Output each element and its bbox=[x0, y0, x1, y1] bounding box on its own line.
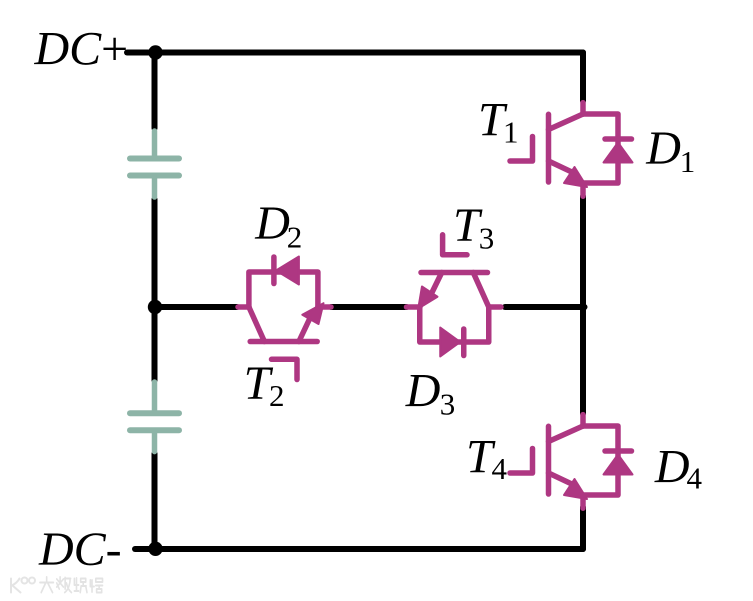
label T2 bbox=[244, 357, 285, 413]
transistor T3 (IGBT) bbox=[407, 235, 502, 309]
D4 branch wiring bbox=[583, 426, 618, 495]
T1 body bar bbox=[546, 114, 552, 182]
svg-text:3: 3 bbox=[479, 220, 495, 255]
D2 branch wiring bbox=[249, 272, 318, 307]
T4 body bar bbox=[546, 426, 552, 494]
D1 anode triangle bbox=[604, 143, 633, 163]
diode D1 bbox=[583, 114, 633, 183]
capacitor C2 bbox=[130, 382, 179, 452]
T3 emitter diagonal bbox=[431, 273, 442, 295]
label T1 bbox=[478, 93, 519, 149]
label T3 bbox=[453, 199, 494, 255]
diode D2 bbox=[249, 257, 318, 308]
wire left leg middle (C1 to C2 through midpoint node) bbox=[152, 199, 158, 380]
T1 gate lead bbox=[510, 137, 533, 162]
svg-text:DC: DC bbox=[34, 22, 103, 75]
T2 body bar bbox=[250, 339, 317, 345]
svg-text:D: D bbox=[405, 365, 441, 418]
svg-text:4: 4 bbox=[492, 451, 508, 486]
wire T3 to right leg bbox=[505, 304, 585, 310]
svg-text:4: 4 bbox=[687, 460, 703, 495]
wire right leg middle (T1 to T4 through midpoint) bbox=[580, 197, 586, 414]
T4 collector diagonal bbox=[549, 426, 584, 442]
transistor T4 (IGBT) bbox=[510, 415, 587, 509]
diode D3 bbox=[420, 307, 489, 357]
capacitor C1 bbox=[130, 131, 179, 197]
C1 plates bbox=[130, 156, 179, 162]
C2 plates bbox=[130, 410, 179, 416]
svg-text:+: + bbox=[98, 22, 130, 75]
D3 branch wiring bbox=[420, 307, 489, 342]
wire right leg lower (T4 to DC-) bbox=[580, 508, 586, 550]
wire left leg upper (DC+ to C1) bbox=[152, 53, 158, 129]
wire T2 to T3 bbox=[331, 304, 406, 310]
D2 anode triangle bbox=[276, 257, 299, 285]
svg-text:3: 3 bbox=[440, 386, 456, 421]
T1 emitter stub bbox=[580, 183, 586, 196]
T3 body bar bbox=[421, 270, 488, 276]
D2 cathode bar bbox=[271, 257, 277, 284]
svg-text:D: D bbox=[645, 122, 681, 175]
label T4 bbox=[466, 431, 508, 486]
T4 emitter stub bbox=[580, 495, 586, 508]
T4 emitter arrow bbox=[564, 479, 587, 499]
C1 top lead bbox=[152, 131, 158, 159]
T2 collector stub bbox=[238, 304, 249, 310]
C1 bottom lead bbox=[152, 176, 158, 198]
D4 cathode bar bbox=[605, 448, 632, 454]
svg-text:D: D bbox=[254, 197, 290, 250]
T2 gate lead bbox=[272, 359, 298, 379]
T1 emitter diagonal bbox=[549, 161, 577, 174]
D3 cathode bar bbox=[461, 329, 467, 356]
svg-text:2: 2 bbox=[269, 378, 285, 413]
diode D4 bbox=[583, 426, 633, 495]
watermark logo bbox=[11, 578, 35, 593]
T1 collector diagonal bbox=[549, 114, 584, 130]
label D1 bbox=[645, 122, 695, 179]
transistor T1 (IGBT) bbox=[510, 103, 587, 197]
D1 cathode bar bbox=[605, 136, 632, 142]
T1 collector stub bbox=[580, 103, 586, 114]
T2 emitter arrow bbox=[302, 303, 323, 324]
node DC- junction bbox=[148, 542, 162, 556]
T3 emitter arrow bbox=[418, 287, 437, 309]
T4 gate lead bbox=[510, 449, 533, 474]
D4 anode triangle bbox=[604, 455, 633, 475]
T4 collector stub bbox=[580, 415, 586, 426]
label D4 bbox=[654, 440, 703, 495]
T3 gate lead bbox=[443, 235, 467, 255]
svg-text:1: 1 bbox=[680, 144, 696, 179]
svg-text:2: 2 bbox=[287, 220, 303, 255]
svg-text:DC-: DC- bbox=[38, 523, 122, 576]
watermark text bbox=[40, 577, 103, 593]
T1 emitter arrow bbox=[564, 167, 587, 187]
svg-text:D: D bbox=[654, 440, 690, 493]
wire DC- bottom rail bbox=[135, 546, 583, 552]
wire right leg upper (DC+ to T1) bbox=[580, 53, 586, 102]
svg-text:1: 1 bbox=[503, 114, 519, 149]
transistor T2 (IGBT) bbox=[238, 303, 331, 379]
D3 anode triangle bbox=[440, 328, 460, 357]
T2 collector diagonal bbox=[249, 307, 265, 342]
wire DC+ top rail bbox=[127, 50, 583, 56]
wire midpoint to T2 bbox=[155, 304, 238, 310]
T3 emitter stub bbox=[407, 304, 421, 310]
label D2 bbox=[254, 197, 302, 255]
wire left leg lower (C2 to DC-) bbox=[152, 454, 158, 549]
T3 collector stub bbox=[489, 304, 501, 310]
T4 emitter diagonal bbox=[549, 473, 577, 486]
C2 top lead bbox=[152, 382, 158, 413]
D1 branch wiring bbox=[583, 114, 618, 183]
node DC+ junction bbox=[148, 45, 162, 59]
node midpoint junction bbox=[148, 300, 162, 314]
T2 emitter stub bbox=[318, 304, 331, 310]
T3 collector diagonal bbox=[473, 273, 489, 308]
C2 bottom lead bbox=[152, 430, 158, 451]
label D3 bbox=[405, 365, 456, 422]
T2 emitter diagonal bbox=[299, 318, 310, 342]
